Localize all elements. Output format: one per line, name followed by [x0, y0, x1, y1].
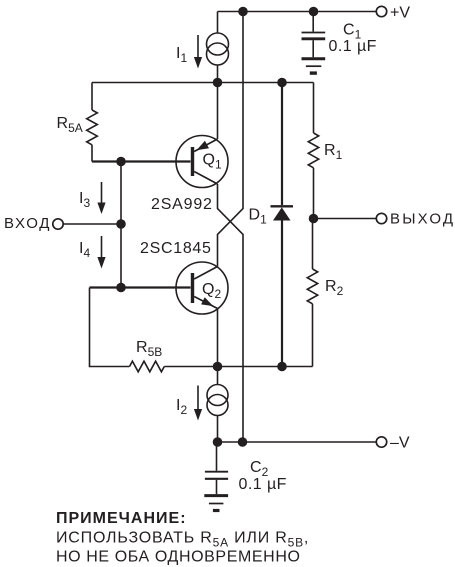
- wire Q2 base line: [90, 286, 191, 288]
- svg-text:D1: D1: [249, 207, 268, 227]
- svg-text:2SA992: 2SA992: [151, 196, 213, 213]
- wire output lead: [314, 218, 377, 220]
- svg-text:Q1: Q1: [203, 152, 222, 172]
- svg-text:НО НЕ ОБА ОДНОВРЕМЕННО: НО НЕ ОБА ОДНОВРЕМЕННО: [56, 549, 301, 566]
- junction I2 to bottom rail: [213, 437, 223, 447]
- wire I2 stem bottom: [217, 416, 219, 443]
- svg-text:ВЫХОД: ВЫХОД: [390, 211, 455, 228]
- label R5A: [57, 115, 83, 135]
- label C1 value: [329, 38, 377, 55]
- wire input bus vertical: [120, 162, 122, 288]
- junction input node: [116, 219, 126, 229]
- svg-text:I1: I1: [176, 45, 187, 65]
- label D1: [249, 207, 268, 227]
- label I1: [176, 45, 187, 65]
- svg-text:ПРИМЕЧАНИЕ:: ПРИМЕЧАНИЕ:: [56, 510, 187, 527]
- wire C1 stem: [312, 12, 314, 32]
- label +V: [390, 5, 410, 22]
- arrow I2: [194, 386, 202, 421]
- junction top rail to +V drop: [238, 7, 248, 17]
- wire bottom -V rail: [218, 441, 377, 443]
- svg-text:+V: +V: [390, 5, 410, 22]
- note heading: [56, 510, 187, 527]
- ground for C2: [204, 496, 228, 511]
- resistor R1: [308, 83, 318, 219]
- capacitor C1: [302, 33, 326, 58]
- label Q2: [202, 281, 221, 301]
- junction top rail to C1: [309, 7, 319, 17]
- svg-text:R1: R1: [324, 142, 343, 162]
- arrow I4: [97, 236, 105, 269]
- junction Q1 collector to bottom rail: [238, 437, 248, 447]
- svg-text:I2: I2: [176, 397, 187, 417]
- junction Q2 emitter node: [213, 362, 223, 372]
- svg-text:R5B: R5B: [136, 339, 162, 359]
- terminal +V: [376, 6, 386, 16]
- wire I1 stem top: [217, 12, 219, 34]
- wire input lead: [63, 223, 121, 225]
- junction I1 to rail: [213, 78, 223, 88]
- svg-text:–V: –V: [390, 435, 410, 452]
- wire R5B left leg: [90, 288, 130, 367]
- wire top +V rail: [218, 11, 377, 13]
- label I2: [176, 397, 187, 417]
- wire upper bias rail: [92, 82, 314, 84]
- junction D1 top: [277, 78, 287, 88]
- svg-text:R5A: R5A: [57, 115, 83, 135]
- terminal -V: [376, 437, 386, 447]
- label I4: [79, 240, 90, 260]
- svg-text:2SC1845: 2SC1845: [140, 240, 212, 257]
- junction D1 bottom: [277, 362, 287, 372]
- svg-text:0.1 µF: 0.1 µF: [239, 476, 287, 493]
- capacitor C2: [205, 472, 228, 495]
- arrow I1: [194, 35, 202, 69]
- note line 3: [56, 549, 301, 566]
- wire I1 stem bottom: [217, 65, 219, 83]
- label R5B: [136, 339, 162, 359]
- svg-text:0.1 µF: 0.1 µF: [329, 38, 377, 55]
- ground for C1: [302, 59, 326, 73]
- wire Q2 emitter down: [217, 310, 219, 367]
- resistor R5B: [130, 361, 165, 372]
- label I3: [79, 190, 90, 210]
- resistor R2: [307, 219, 317, 367]
- wire lower bias rail: [164, 366, 312, 368]
- terminal input: [53, 219, 63, 229]
- label Q2 type 2SC1845: [140, 240, 212, 257]
- label Q1: [203, 152, 222, 172]
- svg-text:I3: I3: [79, 190, 90, 210]
- current source I2: [207, 385, 228, 416]
- transistor Q2: [176, 262, 228, 314]
- junction Q1 base node: [116, 157, 126, 167]
- svg-text:I4: I4: [79, 240, 90, 260]
- label R1: [324, 142, 343, 162]
- current source I1: [207, 33, 229, 65]
- wire Q1 emitter up: [217, 83, 219, 140]
- resistor R5A: [87, 83, 98, 162]
- wire C2 stem: [216, 442, 218, 471]
- label C2 value: [239, 476, 287, 493]
- label output: [390, 211, 455, 228]
- junction Q2 base node: [116, 283, 126, 293]
- note line 2: [56, 530, 309, 550]
- terminal output: [376, 213, 386, 223]
- label C1: [343, 22, 362, 42]
- label R2: [325, 278, 344, 298]
- label input: [4, 215, 51, 232]
- wire I2 stem top: [217, 367, 219, 385]
- label Q1 type 2SA992: [151, 196, 213, 213]
- wire +V drop to crossover: [218, 12, 244, 267]
- label C2: [250, 459, 269, 479]
- wire Q1 collector to crossover: [218, 184, 244, 442]
- label -V: [390, 435, 410, 452]
- transistor Q1: [176, 136, 228, 188]
- wire Q1 base line: [92, 160, 191, 162]
- junction output node: [309, 214, 319, 224]
- svg-text:ИСПОЛЬЗОВАТЬ R5A ИЛИ R5B,: ИСПОЛЬЗОВАТЬ R5A ИЛИ R5B,: [56, 530, 309, 550]
- diode D1: [271, 83, 294, 367]
- svg-text:R2: R2: [325, 278, 344, 298]
- svg-text:ВХОД: ВХОД: [4, 215, 51, 232]
- arrow I3: [97, 182, 105, 214]
